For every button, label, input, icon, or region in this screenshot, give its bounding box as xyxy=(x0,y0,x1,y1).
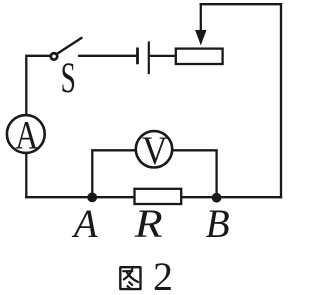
switch S lever xyxy=(57,38,81,54)
node B junction dot xyxy=(212,193,222,203)
switch S pivot xyxy=(51,53,57,59)
wire: right side down xyxy=(280,4,282,197)
wire: top run from slider to top-right corner xyxy=(201,3,281,5)
svg-text:B: B xyxy=(206,201,230,246)
battery negative short plate xyxy=(136,49,139,63)
voltmeter branch wire: voltmeter right then down to node B xyxy=(173,150,217,197)
battery positive long plate xyxy=(148,43,150,74)
ammeter U1 circle xyxy=(7,115,45,153)
svg-text:A: A xyxy=(15,112,38,157)
caption: character 图 drawn as strokes xyxy=(120,267,140,289)
wire: bottom left corner to node A xyxy=(26,196,92,198)
rheostat slider arrow stem xyxy=(200,4,202,33)
wire: ammeter up to top-left corner and right to switch pivot xyxy=(26,56,49,115)
node A junction dot xyxy=(87,193,97,203)
svg-text:R: R xyxy=(134,201,163,246)
voltmeter branch wire: node A up then right to voltmeter xyxy=(92,150,135,197)
wire: bottom right corner to node B xyxy=(217,196,281,198)
voltmeter U2 circle xyxy=(136,131,172,167)
rheostat slider arrowhead xyxy=(195,30,206,45)
rheostat RP body xyxy=(176,49,223,64)
svg-text:S: S xyxy=(61,55,76,102)
wire: ammeter down to bottom-left corner xyxy=(25,154,27,198)
wire: node B to resistor right lead xyxy=(181,196,216,198)
svg-text:A: A xyxy=(71,201,98,246)
wire: switch fixed contact to battery xyxy=(79,55,136,57)
wire: node A to resistor left lead xyxy=(92,196,134,198)
resistor R body xyxy=(135,189,182,204)
wire: battery to rheostat xyxy=(150,55,176,57)
svg-text:V: V xyxy=(142,128,168,173)
svg-text:2: 2 xyxy=(153,254,173,295)
